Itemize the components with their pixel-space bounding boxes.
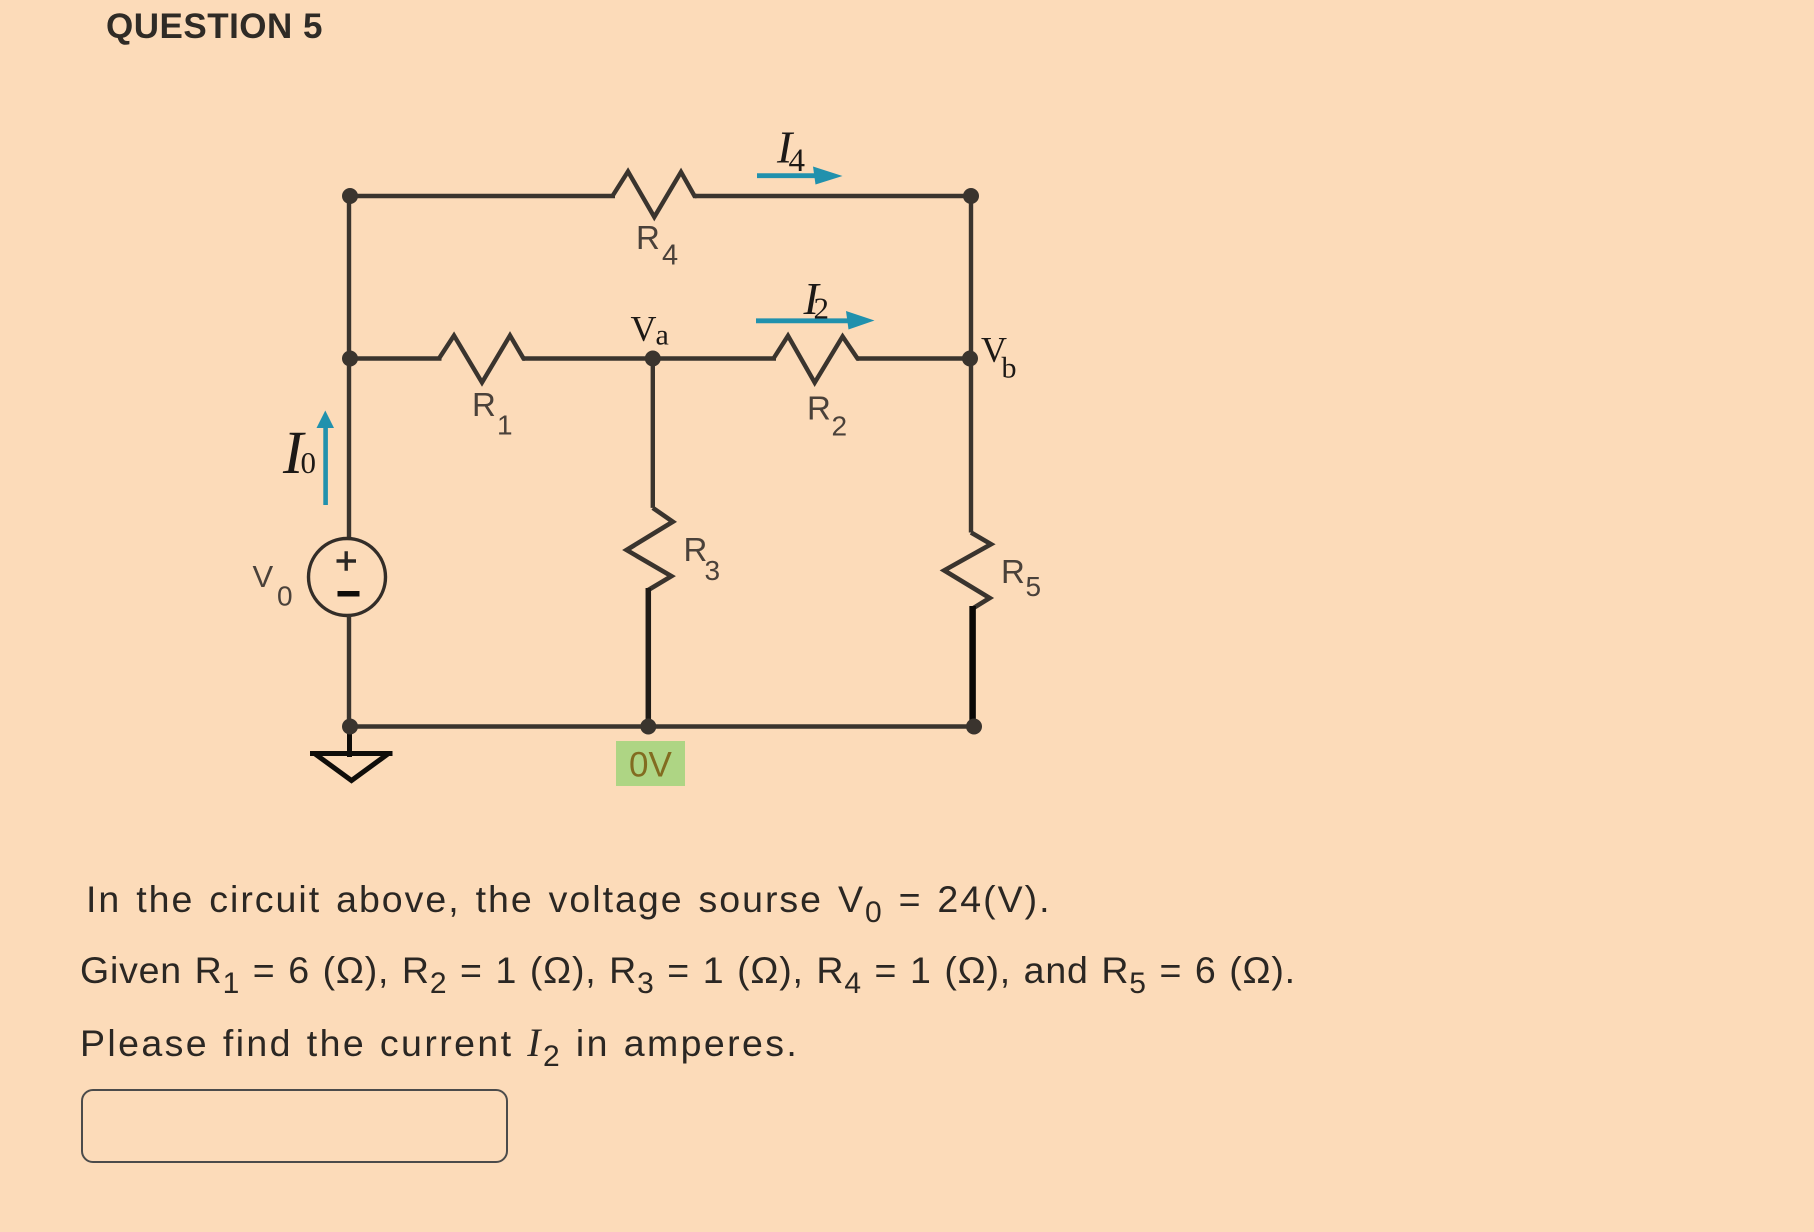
current arrow I0 bbox=[323, 426, 328, 505]
wire right vertical upper bbox=[969, 196, 973, 359]
current arrow I2 bbox=[756, 318, 852, 323]
svg-text:1: 1 bbox=[497, 410, 513, 441]
svg-text:R: R bbox=[472, 386, 496, 423]
node Vb bbox=[962, 351, 978, 367]
svg-text:b: b bbox=[1002, 352, 1017, 385]
current arrow I4 bbox=[757, 173, 820, 178]
svg-text:2: 2 bbox=[832, 411, 848, 442]
voltage source plus sign bbox=[337, 551, 357, 570]
resistor R4 bbox=[613, 172, 697, 218]
resistor R2 bbox=[774, 336, 860, 383]
node middle-left bbox=[342, 351, 358, 367]
svg-text:a: a bbox=[656, 319, 669, 352]
svg-text:4: 4 bbox=[662, 240, 678, 272]
svg-text:5: 5 bbox=[1026, 571, 1042, 602]
wire left vertical upper bbox=[347, 196, 351, 359]
voltage source V0 circle bbox=[309, 539, 386, 616]
node Va bbox=[645, 351, 661, 367]
svg-text:4: 4 bbox=[789, 143, 806, 179]
wire top-left segment bbox=[350, 194, 615, 198]
wire right vertical middle bbox=[969, 359, 973, 533]
wire R5 bottom thick bbox=[969, 606, 976, 729]
wire middle-center segment bbox=[523, 356, 776, 360]
node label 0V ground potential box bbox=[616, 741, 685, 786]
question text line 3 bbox=[80, 1019, 799, 1066]
wire R3 bottom thick bbox=[646, 588, 652, 727]
wire left vertical lower bbox=[347, 616, 351, 727]
node top-left bbox=[342, 188, 358, 204]
question text line 2 bbox=[80, 949, 1296, 992]
node bottom-middle bbox=[640, 719, 656, 735]
wire left vertical middle bbox=[347, 359, 351, 540]
resistor R1 bbox=[439, 336, 525, 383]
svg-text:R: R bbox=[1001, 553, 1025, 590]
svg-text:V: V bbox=[253, 559, 274, 594]
wire R3 upper vertical bbox=[651, 359, 655, 508]
svg-text:2: 2 bbox=[814, 291, 830, 326]
title QUESTION 5 bbox=[106, 7, 323, 47]
node top-right bbox=[963, 188, 979, 204]
node bottom-right bbox=[966, 719, 982, 735]
wire bottom bbox=[350, 724, 974, 728]
question text line 1 bbox=[86, 878, 1052, 921]
svg-text:0V: 0V bbox=[629, 746, 672, 785]
svg-text:R: R bbox=[807, 390, 831, 427]
wire middle-right segment bbox=[857, 356, 971, 360]
resistor R5 zigzag bbox=[944, 533, 991, 609]
svg-text:0: 0 bbox=[277, 581, 293, 612]
svg-text:V: V bbox=[631, 309, 657, 349]
answer input box bbox=[81, 1089, 508, 1163]
wire middle-left segment bbox=[350, 356, 442, 360]
svg-text:R: R bbox=[636, 219, 660, 256]
node bottom-left bbox=[342, 719, 358, 735]
ground triangle bbox=[310, 754, 393, 781]
svg-text:3: 3 bbox=[705, 555, 721, 586]
ground stub bbox=[347, 727, 352, 758]
wire top-right segment bbox=[695, 194, 971, 198]
resistor R3 zigzag bbox=[627, 508, 673, 590]
svg-text:0: 0 bbox=[301, 445, 317, 480]
voltage source minus sign bbox=[338, 591, 360, 597]
